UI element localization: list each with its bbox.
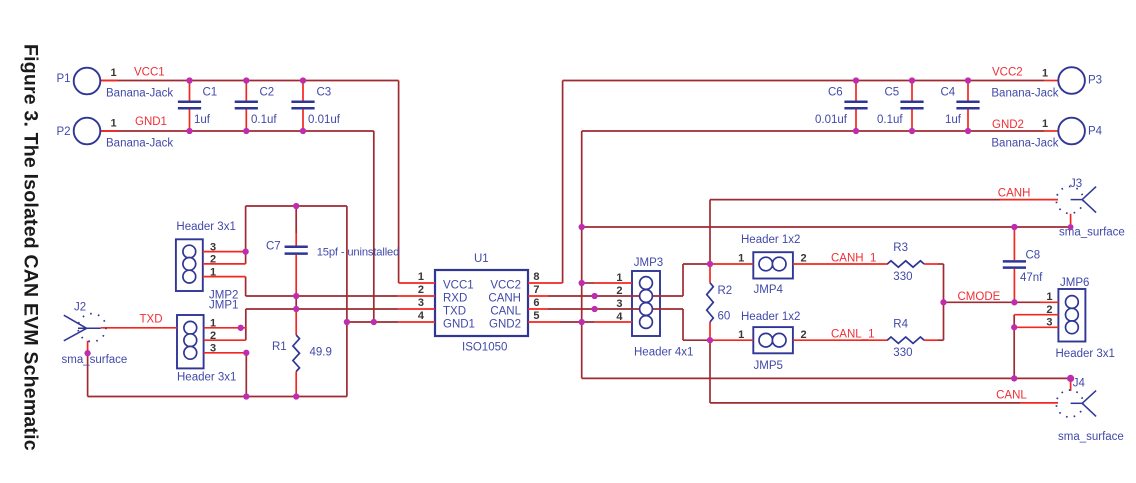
svg-text:sma_surface: sma_surface (1059, 227, 1125, 239)
svg-text:4: 4 (616, 311, 623, 323)
svg-text:GND1: GND1 (135, 116, 167, 128)
svg-text:1: 1 (1042, 118, 1048, 130)
svg-text:1: 1 (1042, 67, 1048, 79)
svg-text:C3: C3 (317, 87, 332, 99)
svg-text:JMP4: JMP4 (754, 284, 784, 296)
svg-text:VCC1: VCC1 (443, 279, 474, 291)
svg-text:330: 330 (893, 347, 912, 359)
svg-text:1: 1 (110, 67, 116, 79)
svg-text:8: 8 (533, 271, 539, 283)
svg-text:Header 1x2: Header 1x2 (741, 234, 800, 246)
svg-text:C4: C4 (941, 87, 956, 99)
svg-text:P2: P2 (57, 126, 71, 138)
svg-text:VCC2: VCC2 (992, 66, 1023, 78)
svg-text:JMP6: JMP6 (1060, 277, 1089, 289)
svg-text:Banana-Jack: Banana-Jack (106, 87, 173, 99)
svg-text:60: 60 (718, 311, 731, 323)
svg-text:ISO1050: ISO1050 (462, 342, 507, 354)
svg-text:Banana-Jack: Banana-Jack (991, 87, 1058, 99)
svg-text:1uf: 1uf (194, 114, 211, 126)
svg-text:330: 330 (893, 271, 912, 283)
svg-text:Header 3x1: Header 3x1 (177, 371, 236, 383)
svg-text:R3: R3 (893, 242, 908, 254)
svg-text:J4: J4 (1073, 378, 1086, 390)
svg-text:0.01uf: 0.01uf (308, 114, 341, 126)
svg-text:1: 1 (110, 118, 116, 130)
svg-text:Banana-Jack: Banana-Jack (991, 137, 1058, 149)
svg-text:1: 1 (210, 318, 216, 330)
svg-text:JMP1: JMP1 (209, 300, 238, 312)
svg-text:Header 1x2: Header 1x2 (741, 311, 800, 323)
svg-text:1: 1 (210, 266, 216, 278)
svg-text:GND1: GND1 (443, 318, 475, 330)
svg-text:P1: P1 (57, 73, 71, 85)
svg-text:2: 2 (210, 330, 216, 342)
svg-text:GND2: GND2 (489, 318, 521, 330)
svg-text:JMP5: JMP5 (754, 360, 783, 372)
svg-text:P4: P4 (1088, 126, 1103, 138)
svg-text:C2: C2 (260, 87, 275, 99)
svg-text:P3: P3 (1088, 75, 1102, 87)
svg-text:4: 4 (418, 310, 425, 322)
svg-text:CANL: CANL (490, 305, 521, 317)
svg-text:7: 7 (533, 284, 539, 296)
svg-text:R2: R2 (718, 285, 733, 297)
svg-text:3: 3 (616, 298, 622, 310)
svg-text:CANH: CANH (488, 292, 521, 304)
svg-text:0.1uf: 0.1uf (877, 114, 903, 126)
svg-text:1: 1 (738, 329, 744, 341)
svg-text:J3: J3 (1070, 178, 1082, 190)
svg-text:C5: C5 (885, 87, 900, 99)
svg-text:6: 6 (533, 297, 539, 309)
svg-text:1: 1 (1046, 291, 1052, 303)
svg-text:sma_surface: sma_surface (62, 354, 128, 366)
svg-text:2: 2 (1046, 304, 1052, 316)
svg-text:R1: R1 (272, 341, 287, 353)
svg-text:R4: R4 (893, 319, 908, 331)
svg-text:Figure 3. The Isolated CAN EVM: Figure 3. The Isolated CAN EVM Schematic (20, 44, 42, 451)
svg-text:5: 5 (533, 310, 539, 322)
svg-text:1: 1 (738, 252, 744, 264)
svg-text:2: 2 (418, 284, 424, 296)
svg-text:CANH_1: CANH_1 (831, 252, 876, 264)
svg-text:TXD: TXD (140, 314, 163, 326)
svg-text:3: 3 (418, 297, 424, 309)
svg-text:1: 1 (616, 272, 622, 284)
svg-text:Header 3x1: Header 3x1 (1056, 348, 1115, 360)
svg-text:GND2: GND2 (992, 119, 1024, 131)
svg-text:U1: U1 (474, 253, 489, 265)
svg-text:Header 4x1: Header 4x1 (634, 347, 693, 359)
svg-text:49.9: 49.9 (310, 346, 332, 358)
svg-text:2: 2 (616, 285, 622, 297)
svg-text:CMODE: CMODE (958, 291, 1001, 303)
svg-text:Banana-Jack: Banana-Jack (106, 137, 173, 149)
svg-text:TXD: TXD (443, 305, 466, 317)
svg-text:3: 3 (1046, 317, 1052, 329)
svg-text:VCC2: VCC2 (490, 279, 521, 291)
svg-text:2: 2 (801, 252, 807, 264)
svg-text:VCC1: VCC1 (134, 66, 165, 78)
svg-text:3: 3 (210, 241, 216, 253)
svg-text:CANL_1: CANL_1 (831, 329, 874, 341)
svg-text:15pf - uninstalled: 15pf - uninstalled (317, 246, 400, 258)
svg-text:0.1uf: 0.1uf (251, 114, 277, 126)
svg-text:0.01uf: 0.01uf (815, 114, 848, 126)
svg-text:J2: J2 (74, 301, 86, 313)
svg-text:2: 2 (801, 329, 807, 341)
svg-text:1: 1 (418, 271, 424, 283)
svg-text:CANH: CANH (998, 188, 1031, 200)
svg-text:C7: C7 (266, 240, 281, 252)
svg-text:C1: C1 (203, 87, 218, 99)
svg-text:sma_surface: sma_surface (1058, 431, 1124, 443)
svg-text:C8: C8 (1026, 250, 1041, 262)
svg-text:C6: C6 (828, 87, 843, 99)
svg-text:RXD: RXD (443, 292, 467, 304)
svg-text:1uf: 1uf (945, 114, 962, 126)
svg-text:CANL: CANL (996, 389, 1027, 401)
svg-text:2: 2 (210, 254, 216, 266)
svg-text:3: 3 (210, 343, 216, 355)
svg-text:47nf: 47nf (1020, 272, 1043, 284)
svg-text:JMP3: JMP3 (634, 257, 663, 269)
svg-text:Header 3x1: Header 3x1 (176, 221, 235, 233)
